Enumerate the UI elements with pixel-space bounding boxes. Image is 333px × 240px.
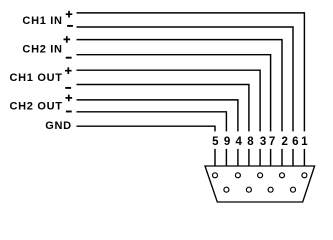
- svg-text:8: 8: [247, 136, 254, 148]
- svg-text:1: 1: [301, 136, 308, 148]
- svg-text:3: 3: [260, 136, 266, 148]
- svg-text:4: 4: [236, 136, 243, 148]
- svg-text:GND: GND: [45, 120, 72, 132]
- svg-text:CH2 OUT: CH2 OUT: [10, 101, 63, 113]
- svg-text:5: 5: [212, 136, 219, 148]
- svg-text:CH2 IN: CH2 IN: [22, 44, 62, 56]
- svg-text:6: 6: [292, 136, 298, 148]
- svg-text:9: 9: [224, 136, 230, 148]
- svg-text:2: 2: [281, 136, 287, 148]
- svg-text:CH1 OUT: CH1 OUT: [10, 72, 63, 84]
- svg-text:7: 7: [269, 136, 275, 148]
- svg-text:CH1 IN: CH1 IN: [22, 15, 62, 27]
